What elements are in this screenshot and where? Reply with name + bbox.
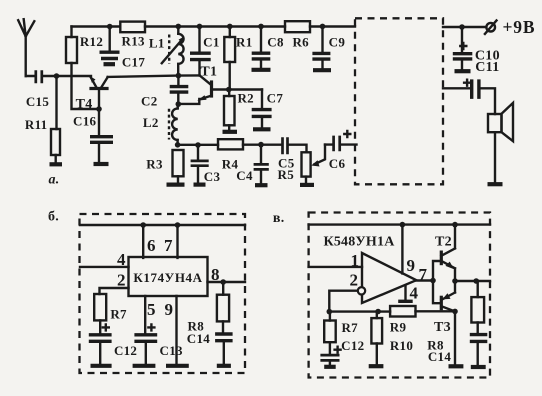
svg-text:C15: C15 xyxy=(26,94,49,109)
svg-text:R2: R2 xyxy=(237,91,254,106)
svg-text:T2: T2 xyxy=(435,235,452,250)
svg-text:К174УН4А: К174УН4А xyxy=(133,270,202,285)
svg-text:R12: R12 xyxy=(80,34,103,49)
svg-text:К548УН1А: К548УН1А xyxy=(323,234,395,249)
svg-text:R6: R6 xyxy=(292,35,309,50)
svg-text:C4: C4 xyxy=(236,168,253,183)
svg-text:2: 2 xyxy=(350,271,359,290)
svg-text:7: 7 xyxy=(419,265,428,284)
svg-text:R7: R7 xyxy=(110,306,127,321)
svg-text:R3: R3 xyxy=(146,156,163,171)
svg-text:7: 7 xyxy=(164,236,173,255)
svg-text:R10: R10 xyxy=(390,338,413,353)
svg-text:C17: C17 xyxy=(122,55,145,70)
svg-text:T3: T3 xyxy=(434,320,451,335)
svg-text:C1: C1 xyxy=(203,35,220,50)
svg-text:C7: C7 xyxy=(267,91,284,106)
svg-text:9: 9 xyxy=(165,300,174,319)
svg-text:а.: а. xyxy=(48,173,59,188)
svg-text:R1: R1 xyxy=(236,35,253,50)
svg-text:T4: T4 xyxy=(76,97,93,112)
svg-text:2: 2 xyxy=(117,271,126,290)
svg-text:9: 9 xyxy=(407,256,416,275)
svg-text:6: 6 xyxy=(147,236,156,255)
svg-text:C8: C8 xyxy=(267,35,284,50)
svg-text:5: 5 xyxy=(147,300,156,319)
svg-text:R11: R11 xyxy=(25,117,48,132)
svg-text:C11: C11 xyxy=(475,60,499,75)
svg-text:8: 8 xyxy=(211,265,220,284)
svg-text:б.: б. xyxy=(48,210,59,225)
svg-text:L1: L1 xyxy=(149,36,165,51)
svg-text:C16: C16 xyxy=(73,114,96,129)
svg-text:R5: R5 xyxy=(278,167,295,182)
svg-text:4: 4 xyxy=(410,284,419,303)
svg-text:в.: в. xyxy=(273,211,285,226)
svg-text:C3: C3 xyxy=(204,169,221,184)
svg-text:L2: L2 xyxy=(143,115,159,130)
svg-text:C13: C13 xyxy=(160,343,183,358)
svg-text:C14: C14 xyxy=(428,349,451,364)
svg-text:+9В: +9В xyxy=(503,17,536,37)
svg-text:R7: R7 xyxy=(341,320,358,335)
svg-text:1: 1 xyxy=(351,251,360,270)
svg-text:C12: C12 xyxy=(341,338,364,353)
svg-text:C2: C2 xyxy=(141,94,158,109)
svg-text:T1: T1 xyxy=(200,64,217,79)
svg-text:C12: C12 xyxy=(114,343,137,358)
svg-text:4: 4 xyxy=(117,250,126,269)
svg-text:R9: R9 xyxy=(390,319,407,334)
svg-text:C14: C14 xyxy=(187,331,210,346)
svg-text:C6: C6 xyxy=(329,156,346,171)
svg-text:C9: C9 xyxy=(329,35,346,50)
svg-text:R13: R13 xyxy=(122,34,145,49)
